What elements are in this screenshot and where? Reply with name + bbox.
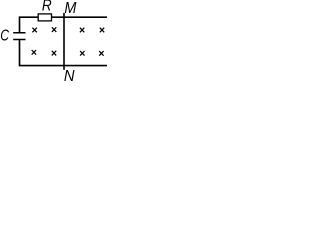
svg-text:N: N: [64, 68, 75, 82]
rod MN: [63, 13, 65, 70]
field mark x row1 col1: [32, 28, 36, 33]
field mark x row1 col4: [100, 28, 104, 33]
wire top rail and left branch top: [20, 17, 108, 33]
field mark x row2 col2: [52, 51, 56, 56]
svg-text:M: M: [64, 0, 76, 17]
field mark x row2 col3: [80, 51, 84, 56]
field mark x row2 col4: [99, 51, 103, 56]
field mark x row1 col3: [80, 28, 84, 33]
capacitor C plates: [13, 33, 25, 40]
wire left branch bottom and bottom rail: [20, 40, 108, 66]
svg-text:C: C: [0, 27, 9, 45]
field mark x row1 col2: [52, 27, 56, 32]
background: [0, 0, 107, 82]
resistor R box: [38, 14, 51, 21]
svg-text:R: R: [42, 0, 52, 15]
field mark x row2 col1: [32, 50, 36, 55]
